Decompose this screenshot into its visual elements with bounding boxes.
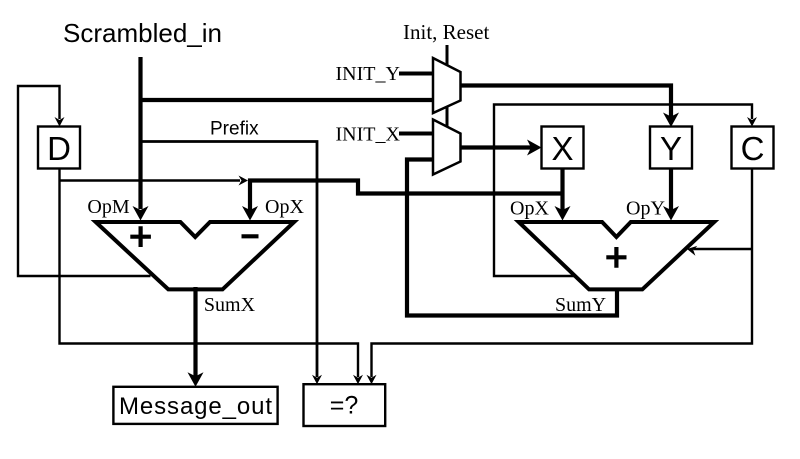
register Y (650, 127, 692, 169)
svg-text:C: C (741, 130, 765, 167)
wire carry-out of SumY ALU to C register (494, 105, 752, 277)
ALU SumX (left, subtractor) (96, 222, 294, 289)
wire D output branch right into OpX node (60, 179, 241, 181)
mux U1 (INIT_Y select) (433, 58, 461, 113)
svg-text:Scrambled_in: Scrambled_in (63, 18, 222, 48)
wire carry-out of SumX ALU to D register (18, 86, 151, 276)
wire select Init,Reset into mux1 (446, 45, 449, 66)
wire select between mux1 and mux2 (446, 106, 449, 129)
register X (542, 127, 584, 169)
wire D output down to =? and comparator line (60, 169, 359, 378)
svg-text:INIT_Y: INIT_Y (336, 63, 400, 85)
plus symbol in right ALU (606, 247, 626, 268)
svg-text:=?: =? (330, 392, 359, 420)
ALU SumY (right, adder) (519, 222, 715, 289)
box comparator =? (304, 384, 386, 426)
wire mux2 output to X register (461, 145, 533, 149)
svg-text:Init, Reset: Init, Reset (403, 20, 489, 44)
wire Prefix branch to =? input (139, 142, 317, 378)
svg-text:Prefix: Prefix (210, 119, 259, 140)
svg-text:SumY: SumY (555, 294, 606, 316)
wire C output carry-in branch into right ALU (694, 248, 752, 250)
plus symbol in left ALU (130, 226, 151, 247)
wire C output down to =? (372, 169, 753, 378)
svg-text:Y: Y (660, 130, 682, 167)
svg-text:Message_out: Message_out (119, 393, 273, 420)
wire Y register output to OpY of right ALU (669, 169, 673, 212)
wire SumX output to Message_out (193, 287, 197, 378)
wire X register output to OpX of right ALU (560, 169, 564, 212)
svg-text:INIT_X: INIT_X (336, 123, 401, 145)
wire Scrambled_in branch to mux1 input (139, 98, 435, 102)
wire mux1 output to Y register (461, 86, 672, 118)
box Message_out (113, 387, 277, 424)
svg-text:SumX: SumX (204, 294, 256, 316)
svg-text:D: D (47, 130, 71, 167)
wire Scrambled_in vertical into OpM (138, 57, 142, 209)
register C (732, 127, 774, 169)
register D (38, 127, 80, 169)
svg-text:OpX: OpX (510, 198, 549, 220)
wire OpX node horizontal run to X register output (248, 181, 563, 194)
svg-text:OpM: OpM (87, 196, 129, 218)
wire X output node to OpX of left ALU (248, 179, 252, 212)
wire SumY output loop to mux2 input (407, 160, 617, 316)
mux U2 (INIT_X select) (433, 120, 461, 175)
svg-text:OpX: OpX (265, 196, 304, 218)
svg-text:X: X (551, 130, 573, 167)
wire INIT_Y into mux1 (399, 72, 434, 76)
minus symbol in left ALU (242, 234, 259, 238)
svg-text:OpY: OpY (626, 198, 665, 220)
wire INIT_X into mux2 (399, 132, 434, 136)
